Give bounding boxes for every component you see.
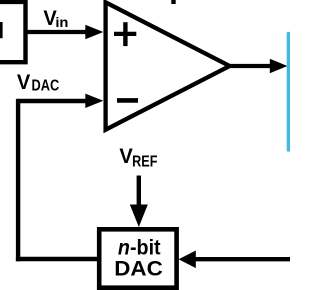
arrowhead into SAR logic block bbox=[270, 59, 288, 74]
minus input symbol bbox=[117, 98, 138, 103]
svg-text:V: V bbox=[119, 144, 132, 168]
svg-text:DAC: DAC bbox=[32, 77, 60, 95]
wire SAR to DAC bbox=[194, 257, 290, 261]
svg-text:REF: REF bbox=[132, 153, 157, 171]
plus input symbol bbox=[114, 32, 136, 36]
svg-text:in: in bbox=[55, 15, 68, 30]
svg-text:V: V bbox=[17, 70, 30, 94]
DAC box U3 bbox=[99, 229, 176, 287]
sample-and-hold box U1 (cropped at left edge) bbox=[0, 2, 26, 62]
wire feedback vertical bbox=[16, 99, 20, 261]
op-amp comparator U2 bbox=[106, 2, 230, 129]
wire VREF bbox=[137, 176, 141, 209]
arrowhead into DAC right side bbox=[179, 251, 196, 269]
wire feedback bottom horizontal bbox=[16, 257, 99, 261]
arrowhead VREF into DAC top bbox=[130, 205, 148, 228]
cropped text descender at top (from label above) bbox=[171, 0, 175, 4]
SAR logic block left edge (cyan, cropped at right) bbox=[287, 34, 290, 151]
wire comparator output bbox=[229, 64, 272, 68]
wire Vin bbox=[26, 30, 88, 34]
wire VDAC horizontal bbox=[16, 99, 88, 103]
svg-text:DAC: DAC bbox=[114, 256, 163, 280]
arrowhead Vin into + input bbox=[85, 25, 103, 39]
arrowhead VDAC into - input bbox=[85, 94, 103, 108]
letter inside S/H box (cropped) bbox=[0, 22, 3, 38]
